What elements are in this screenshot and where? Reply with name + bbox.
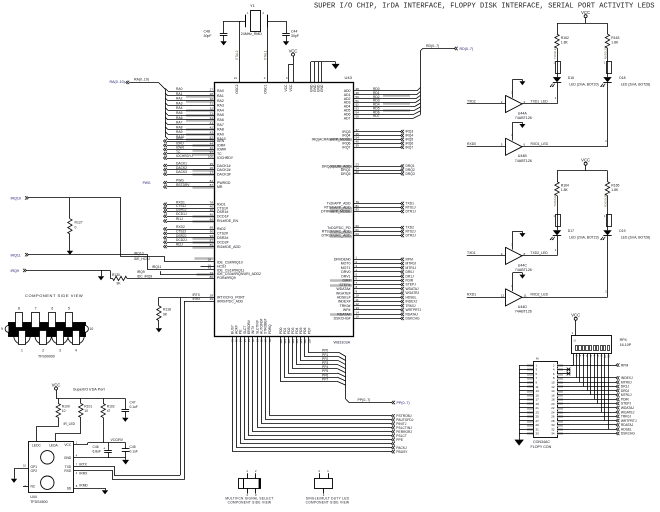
ground at U43 top [332,62,340,69]
svg-text:RA0: RA0 [176,87,183,91]
wire IRRX net [184,297,244,303]
resistor R101 10 [79,398,93,417]
svg-text:OSC1: OSC1 [263,84,267,93]
svg-text:CTS2J: CTS2J [176,229,186,233]
ground below C44 [283,39,289,45]
svg-text:8: 8 [18,307,20,311]
svg-text:PDRQ: PDRQ [268,324,272,334]
wire OSC1 from crystal to U43 [264,21,268,82]
svg-text:DSR2J: DSR2J [176,234,187,238]
svg-text:1.8K: 1.8K [611,41,619,45]
wire U44 GND pin rail [74,457,126,459]
svg-text:U44B: U44B [518,154,528,158]
wires floppy signals to connector [570,363,636,435]
svg-text:VCC: VCC [64,443,72,447]
crystal Y1 24MHz_RMD [224,3,286,36]
svg-text:63: 63 [356,232,360,236]
svg-text:27: 27 [210,170,214,174]
wire D17 cathode to U44C output [555,236,558,256]
wires RXD2 CTS2J DSR2J DCD2J RI2J to U43 [164,225,242,249]
svg-text:RD(0..7): RD(0..7) [460,47,474,51]
svg-text:RA7: RA7 [217,123,224,127]
svg-text:COMPONENT SIDE VIEW: COMPONENT SIDE VIEW [306,501,350,505]
svg-text:RA0: RA0 [217,89,224,93]
wire U44 TXD to IRTX [74,297,181,475]
svg-text:DTR2#/URC_ADD: DTR2#/URC_ADD [322,234,351,238]
svg-text:10: 10 [84,409,88,413]
svg-text:FLOPY CON: FLOPY CON [531,445,552,449]
svg-text:LED (2mA, BOT23): LED (2mA, BOT23) [569,236,598,240]
svg-text:DSKCHG#: DSKCHG# [334,317,351,321]
svg-text:RXD: RXD [64,469,72,473]
svg-text:U44A: U44A [518,111,528,115]
VCC supply for R164/R165 [557,158,608,171]
svg-text:VCC: VCC [289,84,293,92]
wires RA0-RA10 to U43 [165,87,226,141]
svg-text:VCC: VCC [289,48,298,53]
svg-text:87: 87 [210,183,214,187]
svg-text:33: 33 [536,432,540,436]
svg-text:PP(0..7): PP(0..7) [358,398,371,402]
svg-text:RA7: RA7 [176,121,183,125]
wire GP1 GP2 to ground [15,469,29,477]
svg-text:RA8: RA8 [176,125,183,129]
svg-text:R130: R130 [112,273,120,277]
buffer U44A [467,79,557,120]
title text [314,3,655,11]
svg-text:42: 42 [210,126,214,130]
wires IRQ3-IRQ7 from U43 [312,128,414,150]
svg-text:100: 100 [208,154,213,158]
svg-text:R102: R102 [107,405,115,409]
svg-text:IRQ9: IRQ9 [11,269,19,273]
svg-text:4: 4 [75,349,77,353]
svg-text:DSKCHG: DSKCHG [621,432,636,436]
svg-text:73: 73 [208,266,212,270]
svg-text:RA1: RA1 [176,92,183,96]
svg-text:PP7: PP7 [322,377,328,381]
svg-text:GND: GND [320,84,324,92]
svg-text:RA9: RA9 [217,132,224,136]
svg-text:DSR2#: DSR2# [217,236,228,240]
svg-text:PBUSY: PBUSY [396,450,408,454]
svg-text:DRQ3: DRQ3 [341,172,351,176]
svg-text:IRQ9: IRQ9 [137,270,145,274]
svg-text:16-10P: 16-10P [620,343,632,347]
svg-text:RA5: RA5 [217,113,224,117]
svg-text:PP3: PP3 [322,361,328,365]
svg-text:RI2J: RI2J [176,243,183,247]
svg-text:MR: MR [217,185,223,189]
svg-text:3: 3 [59,349,61,353]
wire IRQ9 net with resistor R130 9K [11,269,215,286]
svg-text:DTR1J: DTR1J [406,210,417,214]
IrDA transceiver U44 TFDS4500 [23,440,78,503]
svg-text:55: 55 [356,114,360,118]
svg-text:10: 10 [90,327,94,331]
wire U44 NC stub [23,486,29,488]
svg-text:12: 12 [501,293,505,297]
wire IRTX net [159,293,246,300]
svg-text:PP0: PP0 [322,349,328,353]
U43 bottom pin labels group2 [279,327,312,343]
svg-text:45: 45 [210,213,214,217]
svg-text:R165: R165 [611,184,619,188]
svg-text:DACK3: DACK3 [176,170,187,174]
svg-text:PWG: PWG [143,181,151,185]
svg-text:U44C: U44C [518,263,528,267]
svg-text:DCD1#: DCD1# [217,214,229,218]
svg-text:IRMD: IRMD [79,484,88,488]
svg-text:88: 88 [210,225,214,229]
svg-text:0.1uF: 0.1uF [130,405,138,409]
svg-text:RD7: RD7 [373,114,380,118]
svg-text:18: 18 [208,257,212,261]
svg-text:DSR1J: DSR1J [176,208,187,212]
svg-text:U44D: U44D [518,305,528,309]
svg-text:128: 128 [307,339,311,344]
svg-text:0.1uF: 0.1uF [130,450,138,454]
svg-text:PD7: PD7 [307,327,311,334]
ground below C47 [122,416,128,422]
svg-text:RXD0: RXD0 [467,142,476,146]
svg-text:W83103A: W83103A [334,341,351,345]
wire U44 SD to IRMD [74,484,105,489]
svg-text:IRRX: IRRX [193,297,202,301]
svg-text:TXD2_LED: TXD2_LED [531,251,549,255]
resistor R102 47 [101,398,115,417]
wires TXD1 RTS1J DTR1J from U43 [321,200,416,214]
svg-text:RXD1_LED: RXD1_LED [531,142,549,146]
svg-text:Y1: Y1 [250,3,256,8]
LED D16 [550,76,599,87]
wire IRQ10 net [11,196,215,267]
svg-text:DSR1#: DSR1# [217,210,228,214]
svg-text:LED (2mA, BOT20): LED (2mA, BOT20) [569,82,598,86]
wire D16 cathode to U44A output [555,83,558,104]
svg-text:RA6: RA6 [176,116,183,120]
svg-text:PP1: PP1 [322,353,328,357]
svg-text:1: 1 [21,349,23,353]
series element near D18 [604,46,612,77]
svg-text:41: 41 [210,121,214,125]
svg-text:30: 30 [210,97,214,101]
buffer U44B [467,122,608,163]
svg-text:6.8uF: 6.8uF [93,450,101,454]
U43 bottom pin labels group1 [230,318,271,342]
wires AEN IORJ IOWJ TC IOCHRDYJ to U43 [164,137,234,160]
svg-text:0: 0 [75,226,77,230]
wires PWG RSTDRV to U43 [143,179,231,189]
capacitor C48 30pF [204,21,228,39]
svg-text:RA1: RA1 [217,94,224,98]
svg-text:SUPER I/O CHIP, IrDA INTERFACE: SUPER I/O CHIP, IrDA INTERFACE, FLOPPY D… [314,3,655,11]
svg-text:47: 47 [107,409,111,413]
svg-text:R163: R163 [611,36,619,40]
svg-text:OSC2: OSC2 [235,84,239,93]
connector TFS00000 component side view [1,293,93,359]
SuperI/O IrDA Port label [73,388,106,392]
wire U44 RXD to IRRX [74,301,185,480]
wire IR_LED net R100 to LEDC [37,418,76,442]
svg-text:92: 92 [210,234,214,238]
resistor R163 1.8K [605,23,619,48]
jumper connector signal select [225,469,273,505]
bus PP(0..7) from U43 parallel data pins [281,336,410,405]
svg-text:1.8K: 1.8K [611,188,619,192]
svg-text:15: 15 [356,315,360,319]
svg-text:DTR2J: DTR2J [406,234,417,238]
svg-text:RI1#/IDE_EN: RI1#/IDE_EN [217,219,238,223]
svg-text:SD: SD [67,486,72,490]
svg-text:30pF: 30pF [204,34,212,38]
svg-text:6: 6 [51,307,53,311]
resistor R165 1.8K [605,171,619,196]
GND pins at U43 top [311,62,336,83]
svg-text:GP2: GP2 [31,469,38,473]
svg-text:CTS2#: CTS2# [217,232,228,236]
U43 pin labels IDE_CS IRQ group [217,261,261,280]
capacitor C45 0.1uF [122,443,138,458]
svg-text:RI2#/IDE_ADD: RI2#/IDE_ADD [217,245,241,249]
svg-text:R101: R101 [84,405,92,409]
VCC supply at U43 top [286,48,297,82]
ground below C48 [220,39,226,45]
svg-text:GND: GND [64,456,72,460]
svg-text:C46: C46 [93,445,99,449]
svg-text:10: 10 [62,409,66,413]
svg-text:IRQ7: IRQ7 [406,145,414,149]
ground on SD net [102,488,108,494]
svg-text:21: 21 [234,76,238,80]
svg-text:DTR#/APP_MODE: DTR#/APP_MODE [321,210,351,214]
resistor R164 1.8K [555,171,569,196]
svg-text:31: 31 [210,102,214,106]
svg-text:RA3: RA3 [217,104,224,108]
svg-text:RSTDRV: RSTDRV [176,183,190,187]
ground on IRQ9 branch [98,274,104,280]
wire D19 cathode to U44D output [605,236,607,298]
svg-text:RA8: RA8 [217,128,224,132]
ground for CON34AC odd pins [514,365,524,446]
svg-text:89: 89 [210,243,214,247]
svg-text:74ABT126: 74ABT126 [515,159,532,163]
super I/O chip U43 [215,75,354,344]
svg-text:RXD1: RXD1 [467,293,476,297]
svg-text:28: 28 [210,92,214,96]
svg-text:IRQ7: IRQ7 [342,145,350,149]
svg-text:46: 46 [210,208,214,212]
svg-text:VCC: VCC [581,10,590,15]
svg-text:VCC: VCC [52,382,61,387]
svg-text:IDC_IRQ9: IDC_IRQ9 [137,275,152,279]
svg-text:VCCIRV: VCCIRV [111,438,124,442]
wires parallel port control PBUSY..PSTROBJ [233,336,414,454]
svg-text:RA9: RA9 [176,130,183,134]
wires RP4 pull-ups to floppy signals [570,353,610,429]
series element near D17 [553,194,560,231]
wire R101 to LEDA [56,418,81,442]
svg-text:DCD1J: DCD1J [176,212,187,216]
svg-text:1.8K: 1.8K [561,41,569,45]
wires RXD1 CTS1J DSR1J DCD1J RI1J to U43 [164,200,239,223]
svg-text:30pF: 30pF [291,34,299,38]
jumper connector LED select [306,469,350,505]
svg-text:IOCHRDYJ: IOCHRDYJ [176,154,193,158]
svg-text:IR_LED: IR_LED [64,422,76,426]
svg-text:RA2: RA2 [217,99,224,103]
svg-text:RA6: RA6 [217,118,224,122]
svg-text:83: 83 [356,208,360,212]
svg-text:C47: C47 [130,401,136,405]
svg-text:RXD1LED: RXD1LED [604,46,608,59]
ground on GP pins [11,477,17,483]
capacitor C47 0.1uF [122,398,138,415]
svg-text:PPE: PPE [396,438,403,442]
resistor pack RP4 16-10P [572,336,632,354]
svg-text:IRQ11: IRQ11 [11,253,21,257]
svg-text:D17: D17 [568,229,574,233]
svg-text:RA4: RA4 [217,108,224,112]
wire D18 cathode to U44B output [605,83,607,147]
svg-text:COMPONENT SIDE VIEW: COMPONENT SIDE VIEW [228,501,272,505]
svg-text:IRQ10: IRQ10 [11,197,21,201]
svg-text:R127: R127 [75,221,83,225]
svg-text:XTAL1: XTAL1 [264,50,268,60]
bus RA(0..10) entry [110,78,166,137]
resistor R127 0 ohm [68,198,83,249]
wire VCCIRV rail [74,418,126,445]
svg-text:VCC: VCC [571,313,580,318]
svg-text:74ABT126: 74ABT126 [515,268,532,272]
svg-text:RA(0..10): RA(0..10) [134,78,149,82]
svg-text:PP2: PP2 [322,357,328,361]
svg-text:D18: D18 [619,76,625,80]
svg-text:TFDS4500: TFDS4500 [30,500,47,504]
svg-text:74ABT126: 74ABT126 [515,310,532,314]
wires FDC signals from U43 [330,256,421,321]
svg-text:IOCHRDY: IOCHRDY [217,156,234,160]
floppy connector CON34AC [519,357,570,450]
svg-text:RA2: RA2 [176,97,183,101]
svg-text:POR#/IRQ9: POR#/IRQ9 [217,276,236,280]
LED D18 [601,76,651,87]
resistor R100 10 [56,398,70,417]
svg-text:PP4: PP4 [322,365,328,369]
capacitor C44 30pF [282,21,299,39]
svg-text:9: 9 [1,327,3,331]
svg-text:RPM: RPM [621,363,629,367]
svg-text:U: U [574,338,576,342]
svg-text:87: 87 [210,239,214,243]
svg-text:90: 90 [210,230,214,234]
svg-text:2: 2 [42,349,44,353]
wire IRQ11 net [11,253,215,270]
series element near D19 [604,193,612,230]
svg-text:69: 69 [268,339,272,343]
svg-text:29: 29 [210,297,214,301]
svg-text:R118: R118 [163,308,171,312]
svg-text:IRRX/PDC_ADD: IRRX/PDC_ADD [217,299,244,303]
svg-text:RA3: RA3 [176,101,183,105]
svg-text:LEDC: LEDC [32,444,41,448]
svg-text:27: 27 [210,87,214,91]
svg-text:U43: U43 [345,75,353,80]
svg-text:TFS00000: TFS00000 [38,355,55,359]
svg-text:DRQ3: DRQ3 [406,172,415,176]
wire OSC2 from crystal to U43 [234,21,240,82]
svg-text:11: 11 [524,293,527,297]
VCC supply for IrDA [52,382,126,398]
svg-text:DACK3#: DACK3# [217,172,231,176]
VCC supply for RP4 [571,313,580,336]
svg-text:RXD2LED: RXD2LED [604,193,608,206]
svg-text:LED (2mA, BOT28): LED (2mA, BOT28) [621,82,650,86]
svg-text:CON34AC: CON34AC [533,440,550,444]
buffer U44D [467,273,608,314]
wires TXD2 RTS2J DTR2J from U43 [322,224,417,238]
svg-text:RA5: RA5 [176,111,183,115]
VCC supply for R162/R163 [557,10,608,24]
capacitor C46 6.8uF [93,443,112,458]
svg-text:84: 84 [210,217,214,221]
svg-text:RP4: RP4 [620,338,627,342]
svg-text:9K: 9K [163,313,168,317]
svg-text:IRRX: IRRX [79,472,88,476]
svg-text:RD(0..7): RD(0..7) [426,44,439,48]
svg-text:80: 80 [210,275,214,279]
svg-text:34: 34 [210,116,214,120]
wires DACK1J DACK2J DACK3J to U43 [164,162,231,177]
svg-text:C45: C45 [130,445,136,449]
svg-text:DCD2#: DCD2# [217,240,229,244]
svg-text:39: 39 [356,144,360,148]
buffer U44C [467,231,557,272]
svg-text:24MHz_RMD: 24MHz_RMD [241,32,262,36]
svg-text:C48: C48 [204,30,210,34]
svg-text:D19: D19 [619,229,625,233]
svg-text:D16: D16 [568,76,574,80]
svg-text:5: 5 [68,307,70,311]
svg-text:SuperI/O IrDA Port: SuperI/O IrDA Port [73,388,106,392]
svg-text:TXD2LED: TXD2LED [553,194,557,207]
svg-text:TXD1_LED: TXD1_LED [531,99,549,103]
svg-text:IRQ11: IRQ11 [152,265,161,269]
svg-text:XTAL2: XTAL2 [235,50,239,60]
svg-text:R100: R100 [62,405,70,409]
svg-text:LED (2mA, BOT28): LED (2mA, BOT28) [621,236,650,240]
ground below C45 C46 [122,458,129,465]
svg-text:NC: NC [31,484,36,488]
bus RD(0..7) from U43 AD pins [344,44,473,120]
series element near D16 [553,46,560,77]
svg-text:7: 7 [35,307,37,311]
svg-text:43: 43 [210,131,214,135]
svg-text:R162: R162 [561,36,569,40]
svg-text:RXD2_LED: RXD2_LED [531,293,549,297]
svg-text:TXD2: TXD2 [467,99,476,103]
LED D19 [601,229,651,240]
svg-text:1.8K: 1.8K [561,188,569,192]
ground below R118 [156,326,162,332]
svg-text:32: 32 [210,107,214,111]
svg-text:TXD1: TXD1 [467,251,476,255]
svg-text:VCC: VCC [581,158,590,163]
svg-text:C44: C44 [291,30,297,34]
svg-text:74ABT126: 74ABT126 [515,116,532,120]
svg-text:33: 33 [210,111,214,115]
svg-text:U44: U44 [30,495,37,499]
